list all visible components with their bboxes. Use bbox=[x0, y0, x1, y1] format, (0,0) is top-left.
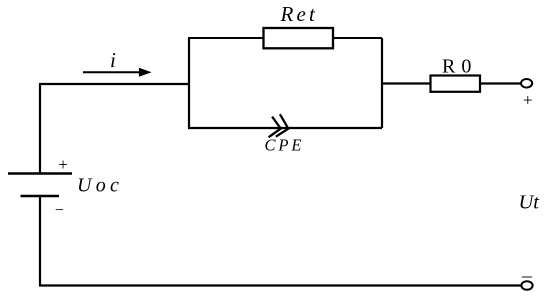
positive output terminal bbox=[521, 79, 532, 88]
negative output terminal bbox=[521, 281, 532, 290]
battery Uoc negative plate bbox=[21, 195, 60, 197]
svg-text:CPE: CPE bbox=[265, 136, 305, 155]
wire: block output to R0 bbox=[382, 82, 431, 84]
wire: bottom rail bbox=[39, 284, 521, 286]
svg-text:Ut: Ut bbox=[519, 191, 541, 213]
resistor R0 body bbox=[431, 76, 481, 92]
svg-text:Uoc: Uoc bbox=[77, 175, 123, 197]
svg-text:R0: R0 bbox=[442, 56, 477, 78]
svg-text:−: − bbox=[55, 202, 64, 219]
wire: parallel block left vertical bbox=[188, 38, 190, 128]
CPE element (double chevron) bbox=[269, 114, 289, 137]
wire: left vertical lower (battery - plate to bottom rail) bbox=[39, 196, 41, 286]
wire: input horizontal from battery top to parallel block bbox=[40, 83, 189, 85]
wire: parallel block right vertical bbox=[381, 38, 383, 128]
svg-text:+: + bbox=[523, 90, 533, 109]
battery Uoc positive plate bbox=[8, 172, 72, 174]
wire: parallel block top left segment bbox=[188, 37, 264, 39]
terminal - mark bbox=[522, 276, 532, 278]
wire: left vertical upper (node to battery + plate) bbox=[39, 83, 41, 173]
resistor Ret body bbox=[264, 28, 334, 48]
wire: parallel block top right segment bbox=[333, 37, 382, 39]
svg-text:i: i bbox=[110, 48, 116, 72]
wire: R0 to positive terminal bbox=[480, 82, 521, 84]
svg-text:+: + bbox=[58, 155, 68, 174]
current arrow i bbox=[83, 68, 152, 77]
wire: parallel block bottom rail bbox=[188, 127, 382, 129]
svg-text:Ret: Ret bbox=[280, 2, 319, 26]
